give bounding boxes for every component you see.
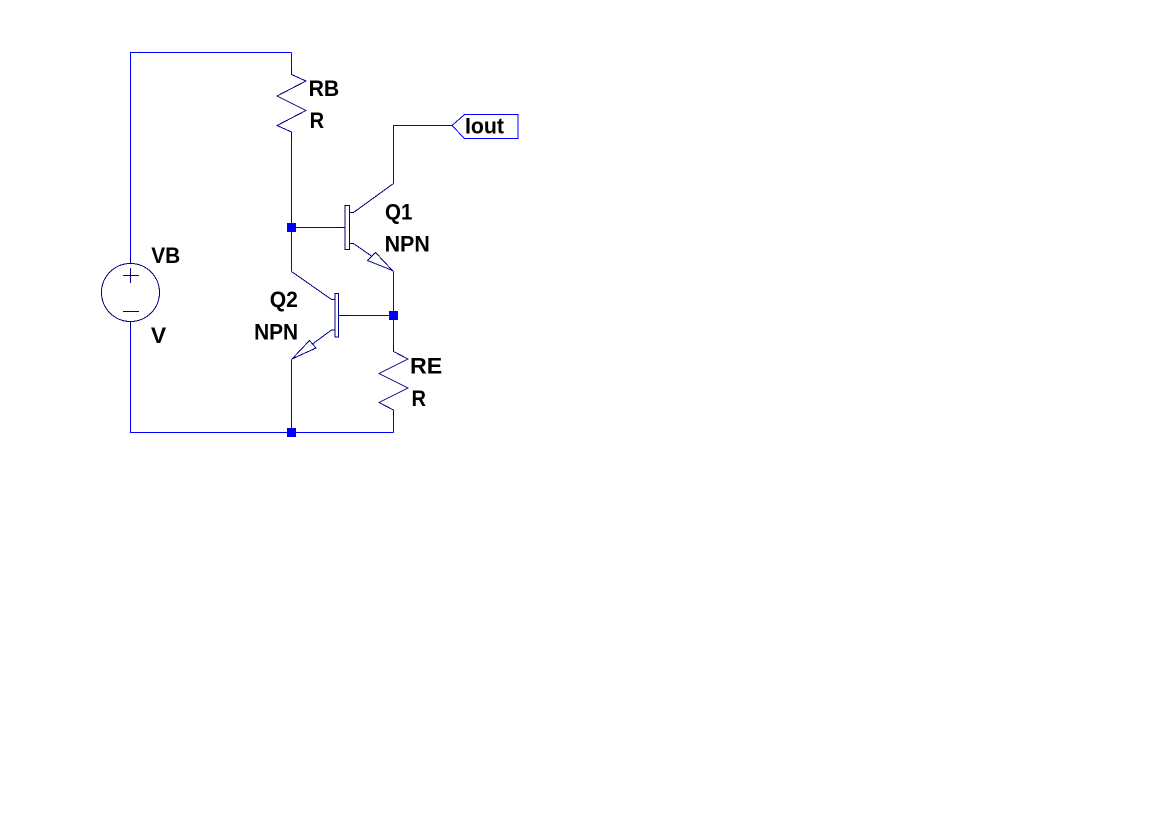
svg-text:R: R	[310, 108, 325, 133]
svg-text:RE: RE	[410, 354, 442, 379]
svg-text:RB: RB	[309, 76, 340, 101]
svg-text:NPN: NPN	[385, 232, 430, 257]
svg-text:NPN: NPN	[254, 320, 298, 345]
svg-text:Iout: Iout	[465, 114, 505, 139]
svg-text:R: R	[412, 386, 427, 411]
svg-text:Q2: Q2	[270, 287, 298, 312]
svg-text:VB: VB	[151, 243, 180, 268]
svg-text:Q1: Q1	[385, 200, 412, 225]
svg-text:V: V	[151, 323, 167, 348]
